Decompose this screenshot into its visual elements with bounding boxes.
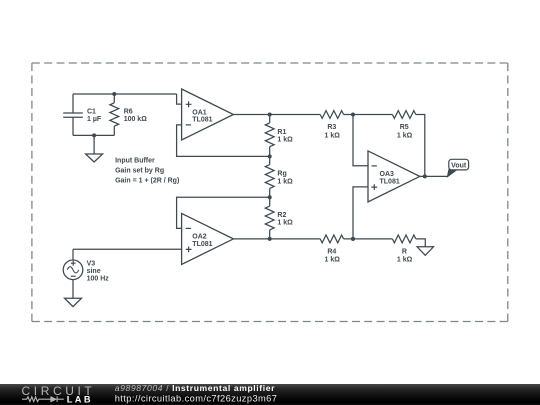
svg-text:sine: sine (87, 268, 101, 275)
svg-text:OA2: OA2 (192, 234, 207, 241)
svg-text:Gain = 1 + (2R / Rg): Gain = 1 + (2R / Rg) (115, 178, 179, 185)
svg-text:http://circuitlab.com/c7f26zuz: http://circuitlab.com/c7f26zuzp3m67 (115, 394, 278, 404)
svg-text:a98987004 / Instrumental ampli: a98987004 / Instrumental amplifier (115, 384, 275, 393)
svg-text:TL081: TL081 (192, 241, 212, 248)
svg-text:OA3: OA3 (380, 171, 395, 178)
svg-text:100 kΩ: 100 kΩ (124, 116, 148, 123)
svg-text:R5: R5 (400, 124, 409, 131)
svg-text:R2: R2 (277, 212, 286, 219)
svg-text:1 kΩ: 1 kΩ (325, 132, 341, 139)
svg-text:R4: R4 (327, 248, 336, 255)
svg-text:TL081: TL081 (380, 179, 400, 186)
svg-text:R: R (402, 248, 407, 255)
svg-text:Rg: Rg (277, 171, 286, 178)
svg-text:1 µF: 1 µF (87, 116, 102, 123)
svg-text:Gain set by Rg: Gain set by Rg (115, 168, 164, 175)
svg-text:R6: R6 (124, 109, 133, 116)
svg-text:R3: R3 (327, 124, 336, 131)
svg-text:Input Buffer: Input Buffer (115, 157, 155, 164)
svg-text:1 kΩ: 1 kΩ (397, 132, 413, 139)
svg-text:Vout: Vout (451, 163, 467, 170)
svg-text:1 kΩ: 1 kΩ (277, 220, 293, 227)
svg-text:1 kΩ: 1 kΩ (397, 256, 413, 263)
svg-text:TL081: TL081 (192, 117, 212, 124)
svg-text:V3: V3 (87, 260, 96, 267)
svg-text:LAB: LAB (67, 395, 93, 405)
svg-text:1 kΩ: 1 kΩ (325, 256, 341, 263)
svg-text:100 Hz: 100 Hz (87, 275, 110, 282)
svg-text:R1: R1 (277, 129, 286, 136)
svg-text:1 kΩ: 1 kΩ (277, 178, 293, 185)
svg-text:1 kΩ: 1 kΩ (277, 137, 293, 144)
svg-text:C1: C1 (87, 109, 96, 116)
svg-text:OA1: OA1 (192, 109, 207, 116)
